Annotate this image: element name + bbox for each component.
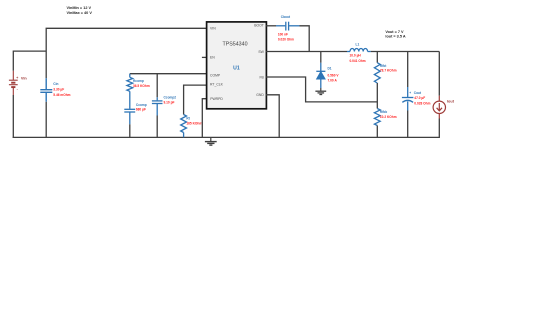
wire: RT_CLK net bbox=[184, 85, 208, 114]
wire: Cout branch top bbox=[407, 52, 409, 88]
wire: SW rail bbox=[266, 51, 347, 53]
wire: Rfbt branch top bbox=[376, 52, 378, 63]
svg-text:9.10 pF: 9.10 pF bbox=[164, 100, 175, 104]
svg-text:10.0 µH: 10.0 µH bbox=[350, 53, 362, 57]
svg-text:PWRPD: PWRPD bbox=[210, 97, 223, 101]
svg-text:0.020 Ohm: 0.020 Ohm bbox=[278, 38, 294, 42]
label Cin bbox=[53, 82, 70, 97]
svg-text:GND: GND bbox=[256, 93, 264, 97]
wire: Ccomp2 branch bottom bbox=[156, 116, 158, 139]
svg-text:U1: U1 bbox=[233, 65, 240, 71]
capacitor Cin bbox=[40, 78, 52, 102]
wire: Rcomp branch to ground rail bbox=[129, 124, 131, 138]
diode D1 bbox=[316, 63, 325, 88]
svg-text:Rcomp: Rcomp bbox=[133, 79, 144, 83]
svg-text:680 pF: 680 pF bbox=[136, 108, 146, 112]
svg-text:EN: EN bbox=[210, 56, 215, 60]
wire: Iout bottom to rail bbox=[438, 119, 440, 139]
svg-text:165 KOhm: 165 KOhm bbox=[186, 122, 202, 126]
svg-text:Vout = 7 V: Vout = 7 V bbox=[385, 30, 404, 34]
ground (main) bbox=[205, 137, 217, 145]
svg-text:0.560 V: 0.560 V bbox=[328, 74, 340, 78]
voltage source Vin (battery) bbox=[9, 71, 18, 95]
label Rfbb bbox=[380, 110, 397, 119]
capacitor Cboot bbox=[276, 22, 300, 31]
wire: COMP net bbox=[130, 73, 207, 75]
capacitor Ccomp bbox=[124, 109, 135, 124]
label D1 bbox=[328, 67, 340, 83]
label Cboot bbox=[278, 15, 294, 41]
svg-text:VIN: VIN bbox=[210, 27, 216, 31]
label Cout bbox=[409, 91, 430, 105]
svg-text:Vin: Vin bbox=[21, 76, 28, 80]
wire: FB net bbox=[266, 77, 378, 102]
svg-text:Ccomp: Ccomp bbox=[136, 103, 147, 107]
svg-text:L1: L1 bbox=[356, 42, 360, 46]
wire: Rfbb bottom to rail bbox=[376, 126, 378, 139]
svg-text:Cboot: Cboot bbox=[281, 15, 291, 19]
label L1 bbox=[350, 42, 366, 63]
capacitor Cout (polarized) bbox=[402, 87, 414, 111]
wire: battery top to Cin node bbox=[13, 51, 46, 71]
svg-text:0.028 Ohm: 0.028 Ohm bbox=[414, 102, 430, 106]
svg-text:SW: SW bbox=[258, 50, 264, 54]
wire: Cboot to SW rail bbox=[300, 26, 310, 52]
wire: battery bottom lead bbox=[12, 95, 14, 138]
svg-text:FB: FB bbox=[259, 75, 264, 79]
svg-text:Rfbb: Rfbb bbox=[380, 110, 387, 114]
svg-text:Ccomp2: Ccomp2 bbox=[164, 96, 177, 100]
svg-text:RT_CLK: RT_CLK bbox=[210, 83, 224, 87]
wire: Rfbt bottom to FB node bbox=[376, 83, 378, 109]
resistor Rfbt bbox=[374, 63, 380, 83]
svg-text:Iout: Iout bbox=[447, 100, 455, 104]
capacitor Ccomp2 bbox=[152, 97, 163, 115]
svg-text:7.00 A: 7.00 A bbox=[328, 79, 338, 83]
label Ccomp2 bbox=[164, 96, 177, 105]
wire: BOOT net bbox=[266, 25, 276, 27]
resistor Rfbb bbox=[374, 109, 380, 126]
svg-text:100 nF: 100 nF bbox=[278, 33, 288, 37]
svg-text:Rfbt: Rfbt bbox=[380, 64, 387, 68]
wire: Iout branch top bbox=[438, 52, 440, 96]
wire: output rail after L1 bbox=[371, 51, 440, 53]
label Rt bbox=[186, 117, 202, 126]
wire: Cin branch top + VIN rail bbox=[46, 28, 207, 78]
current source Iout bbox=[433, 96, 445, 119]
svg-text:VinMin = 12 V: VinMin = 12 V bbox=[67, 6, 92, 10]
label Rcomp bbox=[133, 79, 150, 88]
svg-text:TPS54340: TPS54340 bbox=[222, 41, 247, 47]
svg-text:Cout: Cout bbox=[414, 91, 422, 95]
wire: diode branch from SW bbox=[320, 52, 322, 63]
svg-text:Iout = 3.5 A: Iout = 3.5 A bbox=[385, 35, 405, 39]
wire: Cin branch bottom bbox=[45, 102, 47, 138]
label Rfbt bbox=[380, 64, 397, 73]
wire: Ccomp2 branch top bbox=[156, 74, 158, 98]
wire: Cout bottom to rail bbox=[407, 111, 409, 139]
wire: EN stub bbox=[202, 56, 207, 58]
label Vin bbox=[16, 76, 27, 91]
annotation VinMin/VinMax bbox=[67, 6, 93, 15]
svg-text:36.5 KOhm: 36.5 KOhm bbox=[133, 84, 150, 88]
svg-text:5.46 mOhm: 5.46 mOhm bbox=[53, 93, 70, 97]
resistor Rt bbox=[181, 115, 187, 138]
svg-text:D1: D1 bbox=[328, 67, 332, 71]
ground (diode) bbox=[315, 88, 326, 95]
svg-text:78.7 KOhm: 78.7 KOhm bbox=[380, 69, 397, 73]
wire: bottom ground rail bbox=[13, 136, 440, 138]
svg-text:COMP: COMP bbox=[210, 74, 221, 78]
svg-text:0.041 Ohm: 0.041 Ohm bbox=[350, 59, 366, 63]
svg-text:47.0 µF: 47.0 µF bbox=[414, 96, 425, 100]
resistor Rcomp bbox=[127, 74, 133, 109]
label Ccomp bbox=[136, 103, 147, 112]
svg-text:3.30 µF: 3.30 µF bbox=[53, 88, 64, 92]
svg-text:Cin: Cin bbox=[53, 82, 58, 86]
op-amp U1 TPS54340 (IC body) bbox=[207, 22, 267, 109]
inductor L1 bbox=[347, 48, 371, 51]
svg-text:+: + bbox=[409, 91, 411, 95]
wire: PWRPD to ground rail bbox=[202, 99, 207, 138]
svg-text:10.2 KOhm: 10.2 KOhm bbox=[380, 115, 397, 119]
annotation Vout/Iout bbox=[385, 30, 405, 38]
svg-text:VinMax = 40 V: VinMax = 40 V bbox=[67, 11, 93, 15]
svg-text:BOOT: BOOT bbox=[254, 23, 264, 27]
wire: GND pin to rail bbox=[266, 95, 280, 138]
